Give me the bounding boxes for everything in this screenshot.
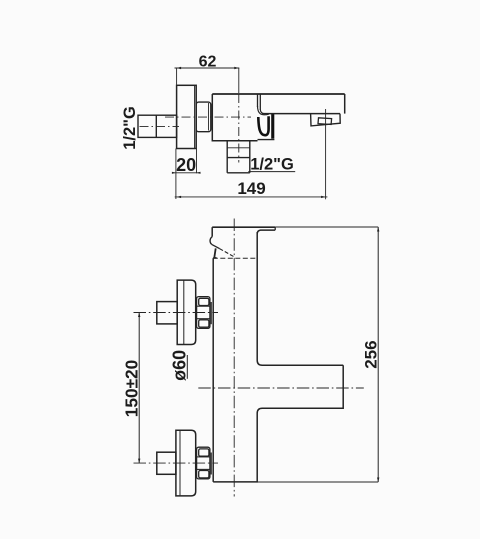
svg-text:ø60: ø60 — [169, 350, 189, 381]
svg-text:256: 256 — [362, 340, 381, 368]
svg-text:149: 149 — [237, 179, 265, 198]
svg-text:62: 62 — [199, 53, 217, 70]
svg-text:150±20: 150±20 — [121, 360, 141, 418]
svg-text:20: 20 — [176, 155, 196, 175]
svg-text:1/2"G: 1/2"G — [121, 106, 139, 150]
svg-text:1/2"G: 1/2"G — [250, 155, 294, 173]
